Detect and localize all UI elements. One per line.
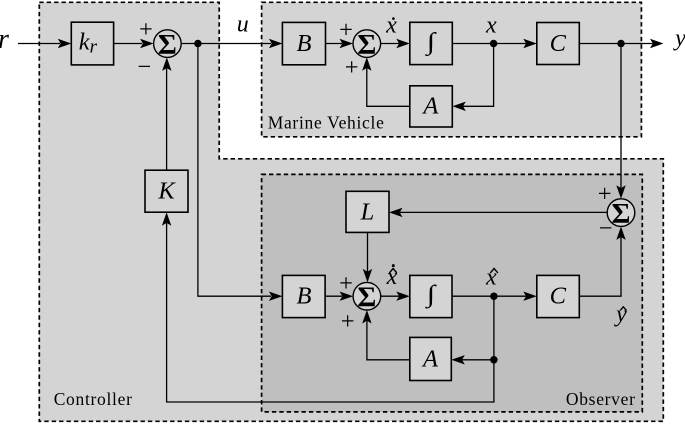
svg-text:K: K <box>157 178 176 205</box>
wire observer B to sum S3 <box>325 292 353 301</box>
wire kr to sum S1 <box>114 39 154 48</box>
label yhat <box>614 301 627 327</box>
svg-text:u: u <box>237 11 249 37</box>
svg-text:A: A <box>421 345 439 372</box>
block marine C <box>537 23 580 65</box>
sign plus S2 bottom <box>345 54 359 81</box>
label Observer <box>566 389 636 409</box>
wire xhat feedback down-left-up to K <box>162 212 494 402</box>
sign plus S3 top <box>339 270 353 297</box>
svg-text:Σ: Σ <box>357 281 376 313</box>
svg-text:+: + <box>341 308 355 335</box>
label xhat <box>485 264 498 290</box>
sign minus S4 <box>599 215 613 242</box>
node y junction dot <box>617 40 625 48</box>
sign plus S4 <box>598 180 612 207</box>
wire u node down and right to observer B <box>198 44 283 301</box>
block marine integrator <box>410 22 453 64</box>
svg-text:Σ: Σ <box>612 198 631 230</box>
wire r input to kr <box>18 39 71 48</box>
svg-text:+: + <box>139 16 153 43</box>
block observer integrator <box>410 275 452 317</box>
sign plus S2 top <box>339 16 353 43</box>
wire x node down to marine A input <box>452 44 493 112</box>
wire S4 output to L <box>389 208 607 217</box>
sum S1 controller <box>154 29 182 61</box>
svg-text:B: B <box>297 283 312 310</box>
label Marine Vehicle <box>268 113 385 133</box>
wire xhat node down to observer A input <box>451 296 494 364</box>
svg-text:+: + <box>339 270 353 297</box>
svg-text:x: x <box>385 12 397 38</box>
marine vehicle dashed box <box>262 2 642 137</box>
label xhatdot <box>386 264 398 290</box>
sign minus S1 <box>137 54 151 81</box>
node u junction dot <box>194 40 202 48</box>
sign plus S1 <box>139 16 153 43</box>
svg-text:Observer: Observer <box>566 389 636 409</box>
svg-text:C: C <box>550 283 567 310</box>
svg-text:Σ: Σ <box>158 29 177 61</box>
block marine A <box>410 86 453 127</box>
block observer A <box>410 337 452 380</box>
wire L down to sum S3 top <box>363 232 372 282</box>
svg-text:y: y <box>673 26 685 52</box>
label y <box>673 26 685 52</box>
wire observer A output to S3 bottom <box>362 310 410 360</box>
wire y node down to sum S4 top <box>616 44 625 199</box>
svg-text:x: x <box>485 12 497 38</box>
sum S3 observer <box>353 281 381 313</box>
wire marine A output to S2 bottom <box>362 57 410 106</box>
block kr <box>71 22 113 65</box>
block observer B <box>282 275 325 317</box>
svg-text:Σ: Σ <box>357 29 376 61</box>
block observer C <box>537 275 580 317</box>
wire observer integrator to observer C (xhat) <box>452 292 537 301</box>
svg-text:Controller: Controller <box>54 389 133 409</box>
observer inner dashed box <box>262 174 643 412</box>
node x junction dot <box>490 40 498 48</box>
sign plus S3 bottom <box>341 308 355 335</box>
wire marine B to sum S2 <box>326 39 354 48</box>
wire S2 to marine integrator <box>381 39 410 48</box>
sum S2 marine <box>353 29 381 61</box>
label Controller <box>54 389 133 409</box>
svg-text:+: + <box>598 180 612 207</box>
svg-text:y: y <box>614 301 627 327</box>
svg-text:C: C <box>550 30 567 57</box>
node observer A input junction dot <box>490 356 498 364</box>
svg-text:+: + <box>339 16 353 43</box>
label x <box>485 12 497 38</box>
svg-text:Marine Vehicle: Marine Vehicle <box>268 113 385 133</box>
block K <box>145 170 188 212</box>
wire marine C to output y <box>579 39 663 48</box>
svg-text:r: r <box>0 24 9 55</box>
svg-text:+: + <box>345 54 359 81</box>
label r <box>0 24 9 55</box>
svg-text:A: A <box>421 93 439 120</box>
sum S4 output correction <box>607 198 635 230</box>
svg-text:−: − <box>599 215 613 242</box>
block marine B <box>282 22 325 64</box>
node xhat junction dot <box>490 292 498 300</box>
svg-text:x: x <box>386 264 398 290</box>
wire observer C up to sum S4 bottom (yhat) <box>579 226 625 296</box>
label xdot <box>385 12 397 38</box>
wire S1 to marine B (u) <box>181 39 282 48</box>
svg-text:B: B <box>297 30 312 57</box>
svg-text:x: x <box>485 264 497 290</box>
svg-text:−: − <box>137 54 151 81</box>
label u <box>237 11 249 37</box>
wire K up to sum S1 bottom <box>162 57 171 170</box>
svg-text:L: L <box>360 198 375 225</box>
block L <box>346 191 389 232</box>
wire S3 to observer integrator <box>381 292 410 301</box>
wire integrator to marine C (x) <box>452 39 537 48</box>
